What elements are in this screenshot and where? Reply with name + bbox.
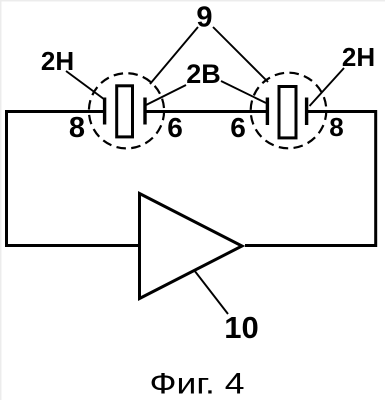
wire: top-left segment from left loop corner to left electrode 8: [5, 110, 104, 113]
piezoelectric crystal (right transducer 2H): [279, 87, 296, 138]
svg-text:6: 6: [230, 112, 246, 143]
leader line from label 2В to right inner electrode: [221, 81, 266, 103]
electrode 8 (right outer plate): [305, 98, 308, 126]
wire: top-right segment, right vertical and amplifier output: [245, 112, 376, 246]
border frame top: [0, 0, 385, 2]
svg-text:9: 9: [196, 2, 212, 34]
piezoelectric crystal (left transducer 2H): [117, 86, 133, 137]
leader line from label 2Н (left) to electrode: [66, 71, 105, 100]
amplifier U 10 (triangle): [140, 194, 243, 299]
dashed circle around left transducer: [89, 73, 164, 148]
leader line from amplifier to label 10: [194, 270, 228, 314]
wire: left vertical + bottom into amplifier input: [5, 110, 138, 247]
svg-text:2В: 2В: [186, 59, 221, 89]
svg-text:10: 10: [224, 310, 258, 345]
leader line from label 2Н (right) to electrode: [310, 68, 345, 106]
svg-text:2Н: 2Н: [342, 42, 375, 72]
wire: top-middle segment between electrodes 6 and 6: [147, 110, 267, 113]
border frame left: [0, 0, 2, 400]
leader line from label 2В to left inner electrode: [145, 85, 186, 106]
dashed circle around right transducer: [251, 73, 327, 149]
electrode 6 (right inner plate): [266, 98, 269, 126]
electrode 6 (left inner plate): [143, 98, 146, 125]
svg-text:8: 8: [329, 112, 343, 142]
leader line from label 9 to right transducer: [213, 27, 268, 82]
svg-text:8: 8: [69, 112, 85, 144]
electrode 8 (left outer plate): [103, 98, 106, 125]
leader line from label 9 to left transducer: [150, 27, 198, 84]
svg-text:6: 6: [167, 112, 183, 143]
svg-text:2Н: 2Н: [41, 46, 74, 76]
svg-text:Фиг. 4: Фиг. 4: [150, 368, 245, 400]
